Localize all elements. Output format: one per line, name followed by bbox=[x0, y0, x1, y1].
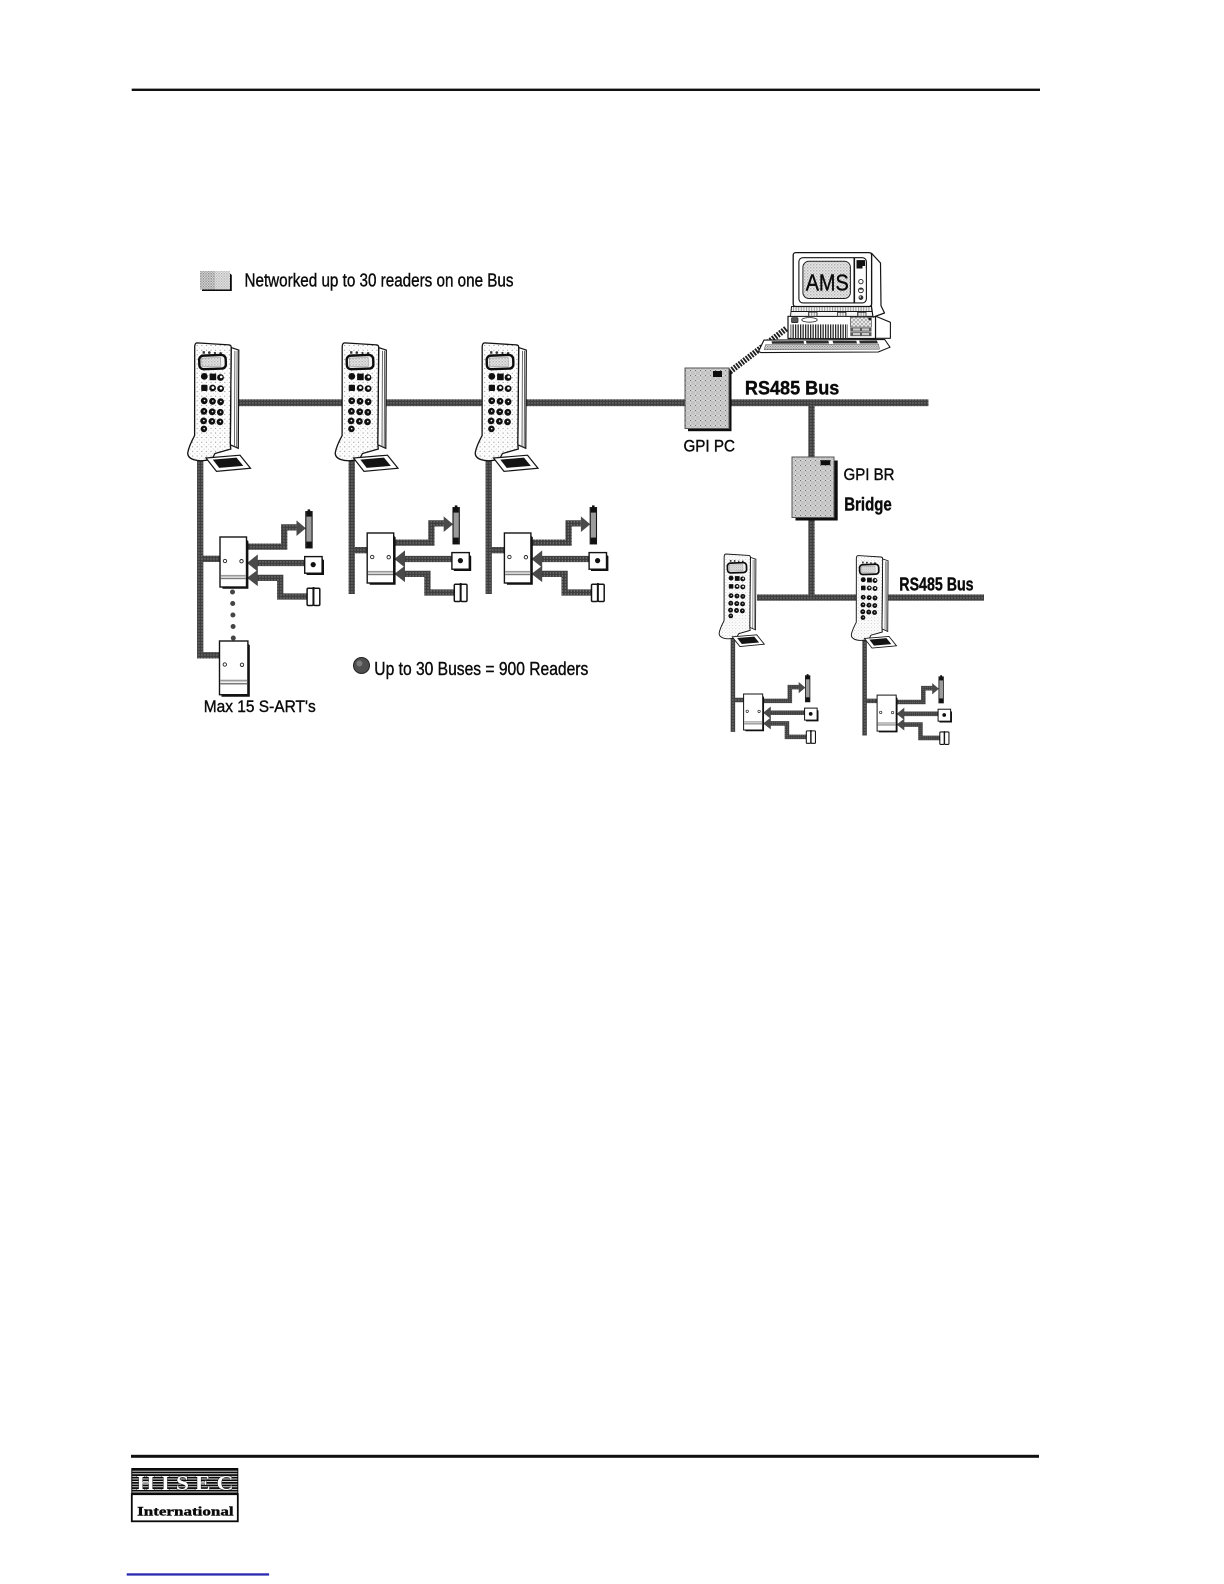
wire GPI BR to bus 2 bbox=[808, 518, 814, 597]
bottom rule bbox=[131, 1455, 1039, 1458]
HISEC logo striped box bbox=[132, 1469, 238, 1495]
reader 5 bbox=[851, 556, 896, 649]
GPI BR shadow bbox=[796, 461, 838, 521]
svg-text:AMS: AMS bbox=[806, 269, 849, 295]
reader 2 bbox=[335, 343, 398, 472]
reader 1 bbox=[188, 343, 251, 472]
svg-text:Networked up to 30 readers on: Networked up to 30 readers on one Bus bbox=[245, 271, 514, 291]
wire reader5 drop bbox=[862, 638, 867, 736]
monitor pedestal bbox=[791, 307, 874, 312]
wire reader3 drop bbox=[486, 455, 492, 594]
wire reader4 to S-ART bbox=[733, 698, 745, 703]
wire bus to GPI BR bbox=[808, 403, 814, 457]
RS485 bus wire 2 bbox=[757, 594, 984, 600]
S-ART box 15 shadow bbox=[222, 644, 250, 697]
reader 4 bbox=[719, 554, 764, 647]
footnote rule bbox=[127, 1573, 269, 1575]
GPI PC box bbox=[685, 368, 729, 429]
S-ART assembly 4 bbox=[744, 674, 819, 743]
RS485 bus wire (main) bbox=[234, 399, 929, 406]
svg-text:GPI BR: GPI BR bbox=[844, 466, 895, 484]
wire reader1 to S-ART bbox=[200, 556, 221, 562]
daisy chain dots bbox=[230, 590, 236, 641]
svg-text:GPI PC: GPI PC bbox=[684, 438, 736, 456]
keyboard bbox=[759, 340, 890, 353]
system unit bbox=[876, 316, 891, 338]
computer workstation bbox=[728, 253, 891, 374]
pc cable bbox=[728, 328, 788, 374]
svg-text:International: International bbox=[137, 1504, 234, 1519]
wire reader2 to S-ART bbox=[352, 547, 369, 553]
svg-text:H I S E C: H I S E C bbox=[137, 1471, 234, 1495]
legend swatch shadow bbox=[202, 274, 232, 292]
wire reader1 drop bbox=[200, 456, 219, 655]
S-ART box 15 bbox=[220, 641, 248, 695]
S-ART assembly 2 bbox=[367, 505, 471, 601]
S-ART assembly 1 bbox=[220, 509, 324, 605]
S-ART assembly 3 bbox=[504, 505, 608, 601]
reader 3 bbox=[475, 343, 538, 472]
monitor shell bbox=[872, 253, 885, 317]
monitor screen bbox=[803, 261, 851, 298]
svg-text:Up to 30 Buses = 900 Readers: Up to 30 Buses = 900 Readers bbox=[374, 659, 588, 679]
svg-text:Bridge: Bridge bbox=[844, 494, 892, 515]
buses bullet bbox=[354, 658, 370, 674]
wire reader2 drop bbox=[349, 455, 355, 594]
GPI BR box bbox=[792, 457, 834, 518]
wire reader3 to S-ART bbox=[489, 547, 506, 553]
wire reader4 drop bbox=[731, 637, 736, 732]
legend swatch bbox=[200, 271, 230, 290]
svg-text:RS485 Bus: RS485 Bus bbox=[745, 378, 840, 400]
monitor controls bbox=[857, 260, 866, 268]
svg-text:Max 15 S-ART's: Max 15 S-ART's bbox=[204, 697, 316, 716]
S-ART assembly 5 bbox=[877, 675, 952, 744]
HISEC logo lower box bbox=[132, 1494, 238, 1521]
top rule bbox=[132, 89, 1040, 91]
wire reader5 to S-ART bbox=[865, 699, 879, 704]
GPI PC shadow bbox=[688, 371, 732, 431]
svg-text:RS485 Bus: RS485 Bus bbox=[899, 574, 973, 594]
